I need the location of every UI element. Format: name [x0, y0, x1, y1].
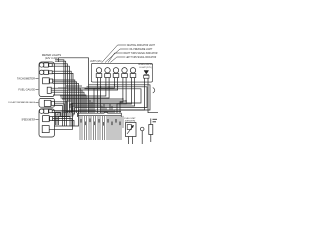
wire mid long 1 — [53, 95, 86, 113]
meter light bulb B2 — [39, 70, 52, 74]
lamp L3 — [113, 68, 119, 78]
harness drop from lamp bends — [109, 104, 111, 113]
wire coolant 2 — [53, 119, 72, 126]
wire bulb B2 upper lead — [52, 71, 71, 113]
svg-text:SPEEDOMETER: SPEEDOMETER — [22, 118, 36, 122]
wire bulb B2 lower lead — [52, 73, 73, 125]
instrument cluster lower housing — [39, 109, 55, 137]
svg-text:COOLANT TEMPERATURE GAUGE: COOLANT TEMPERATURE GAUGE — [8, 101, 35, 104]
right loop outer — [54, 85, 150, 126]
label tachometer — [17, 77, 38, 81]
connector wires down — [80, 116, 123, 140]
meter light bulb B1 — [39, 63, 52, 67]
cross vertical drop 5 — [103, 104, 105, 113]
lamp L5 leads — [70, 78, 131, 108]
wire fuel 1 — [55, 102, 67, 126]
label meter lights above cluster — [42, 53, 61, 60]
junction dots staircase — [63, 63, 66, 67]
svg-text:OIL PRESSURE LIGHT: OIL PRESSURE LIGHT — [129, 48, 152, 51]
inline connector on tach wires — [47, 87, 51, 93]
wire bulb B1 lower lead — [52, 66, 69, 113]
svg-text:LIGHT (12V): LIGHT (12V) — [139, 67, 152, 69]
mesh vert a — [89, 100, 91, 113]
cross vertical drop 6 — [105, 108, 107, 114]
label fuel gauge — [18, 88, 38, 92]
wire illumination loop top — [59, 58, 89, 113]
right loop inner — [57, 87, 147, 125]
long horizontal above bar — [66, 111, 121, 113]
instrument cluster upper housing — [39, 62, 55, 97]
lamp L5 — [130, 68, 136, 78]
wire conn out 1 — [51, 88, 80, 113]
fuel gauge connector block — [44, 100, 54, 106]
indicator lamp panel box — [91, 63, 152, 82]
leader line 2 — [105, 49, 129, 63]
svg-text:LIGHTS (12V): LIGHTS (12V) — [90, 60, 102, 63]
LED leads — [114, 78, 145, 113]
lamp L1 — [96, 68, 102, 78]
lamp L1 leads — [96, 78, 98, 113]
svg-text:NEUTRAL INDICATOR LIGHT: NEUTRAL INDICATOR LIGHT — [127, 44, 156, 47]
cross harness horiz 2 — [66, 101, 126, 113]
mesh horiz a — [66, 85, 82, 87]
svg-text:(SENDER): (SENDER) — [125, 120, 136, 122]
svg-text:FUEL GAUGE: FUEL GAUGE — [18, 88, 35, 92]
label speedometer light above LED — [138, 64, 153, 69]
wire conn out 2 — [51, 90, 82, 113]
leader line 4 — [110, 57, 125, 63]
coolant temp gauge connector block — [43, 116, 53, 122]
wire coolant 3 — [53, 121, 74, 127]
mesh horiz b — [58, 87, 70, 89]
cross vertical drop 7 — [107, 110, 109, 114]
leader line 3 — [108, 53, 123, 63]
lamp L2 — [105, 68, 111, 78]
cross vertical drop 4 — [101, 106, 103, 113]
fuel unit symbol — [127, 125, 134, 135]
wire fuel 3 — [55, 106, 63, 126]
wire illumination loop second — [55, 60, 64, 113]
tachometer connector block — [43, 78, 53, 84]
wire illumination loop third — [55, 61, 66, 113]
fuel unit box — [126, 123, 137, 137]
lamp L2 leads — [60, 78, 106, 96]
right loop third — [56, 89, 142, 125]
wire bulb B1 upper lead — [52, 64, 67, 113]
mesh vert c — [93, 88, 95, 113]
meter light bulb B3 — [39, 109, 52, 113]
lamp L3 leads — [70, 78, 114, 88]
wire tach 3 — [53, 83, 79, 113]
junction dots — [97, 84, 127, 102]
cross harness horiz 1 — [62, 99, 123, 113]
wire fuel 2 — [55, 104, 65, 126]
wire tach 2 — [53, 82, 77, 113]
LED indicator — [144, 71, 149, 79]
wire conn out 3 — [51, 92, 84, 113]
svg-text:RIGHT TURN SIGNAL INDICATOR: RIGHT TURN SIGNAL INDICATOR — [124, 52, 158, 55]
wire code labels — [81, 119, 121, 126]
mesh vert b — [91, 102, 93, 113]
label coolant temperature gauge — [8, 101, 38, 104]
fuel unit label — [124, 118, 136, 123]
wire tach 1 — [53, 80, 75, 113]
label speedometer — [22, 118, 39, 122]
right edge connector arrow — [153, 88, 155, 94]
fuel unit leads — [128, 137, 130, 145]
leader line 1 — [102, 45, 126, 63]
wire bulb B3 leads — [52, 109, 96, 111]
lamp L4 leads — [122, 78, 124, 99]
speedometer connector block — [42, 126, 49, 133]
svg-text:TACHOMETER: TACHOMETER — [17, 77, 35, 81]
wire speedometer — [49, 106, 102, 129]
svg-text:LEFT TURN SIGNAL INDICATOR: LEFT TURN SIGNAL INDICATOR — [126, 56, 157, 59]
small component right 2 — [149, 119, 153, 143]
lamp L4 — [122, 68, 128, 78]
wire coolant 1 — [53, 117, 70, 126]
connector bar — [78, 112, 122, 117]
instrument cluster middle housing — [39, 98, 55, 107]
small component right 1 — [140, 127, 144, 144]
tiny label near right component — [153, 119, 158, 122]
